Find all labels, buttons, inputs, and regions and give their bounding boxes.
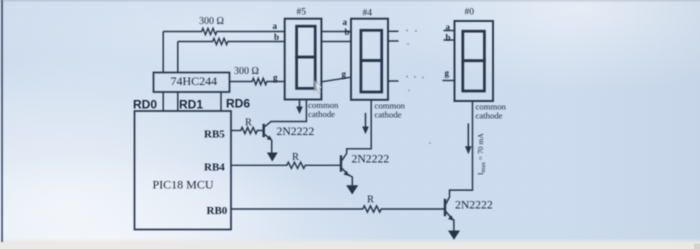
ground arrow Q3: [448, 231, 460, 240]
wire RB4 from PIC: [231, 164, 286, 166]
display DS5 seven-segment #5 box: [285, 19, 322, 100]
mouse cursor pointer: [314, 80, 322, 93]
microcontroller U2 PIC18 MCU box: [135, 111, 232, 230]
svg-text:RB5: RB5: [204, 129, 225, 141]
wire segment-a DS5 to DS4: [321, 31, 351, 33]
svg-text:a: a: [273, 21, 278, 31]
svg-text:#0: #0: [465, 8, 475, 18]
wire RB0 from PIC: [231, 208, 362, 210]
svg-text:#5: #5: [297, 8, 307, 18]
svg-text:2N2222: 2N2222: [277, 125, 315, 138]
wire segment-b stub right of DS4: [388, 40, 399, 42]
svg-text:a: a: [446, 22, 451, 32]
wire riser to segment b line: [177, 42, 179, 73]
transistor Q2 2N2222: [341, 153, 349, 176]
ground arrow Q1: [267, 153, 278, 162]
wire Q1 emitter to ground: [271, 140, 273, 153]
svg-text:cathode: cathode: [476, 111, 503, 121]
svg-text:cathode: cathode: [375, 110, 402, 120]
wire segment-g to display DS5: [268, 81, 285, 83]
resistor R3 300ohm on segment g: [252, 78, 268, 84]
resistor R2 on segment b: [212, 38, 228, 44]
svg-text:300 Ω: 300 Ω: [234, 66, 259, 77]
svg-text:b: b: [274, 32, 279, 42]
svg-text:g: g: [445, 68, 450, 78]
svg-text:g: g: [342, 69, 347, 79]
wire Q3 emitter to ground: [453, 219, 454, 231]
wire RD6 stub PIC to 74HC244: [220, 92, 222, 111]
transistor Q3 2N2222: [445, 196, 454, 220]
display DS0 digit eight segments: [463, 31, 485, 91]
svg-text:300 Ω: 300 Ω: [199, 16, 224, 27]
svg-text:2N2222: 2N2222: [352, 153, 390, 166]
current arrow under DS4: [362, 113, 369, 134]
svg-text:RD0: RD0: [133, 98, 157, 112]
display DS0 seven-segment #0 box: [455, 21, 494, 101]
svg-text:cathode: cathode: [308, 109, 335, 119]
wire segment-g stub right of DS4: [388, 80, 399, 82]
wire RD0 stub PIC to 74HC244: [162, 92, 164, 111]
svg-text:g: g: [273, 73, 278, 83]
wire R4 to Q1 base: [258, 130, 263, 132]
wire RD1 stub PIC to 74HC244: [177, 92, 179, 111]
wire R6 to Q3 base: [382, 208, 444, 210]
wire segment-a stub into DS0: [444, 30, 455, 32]
wire segment-g net from 74HC244: [230, 81, 252, 83]
svg-text:b: b: [446, 33, 451, 43]
wire DS5 common cathode down: [271, 100, 307, 122]
svg-text:R: R: [367, 195, 374, 206]
svg-text:R: R: [245, 118, 252, 129]
display DS4 seven-segment #4 box: [351, 19, 388, 100]
resistor R6 on RB0: [362, 206, 382, 212]
wire Q2 emitter to ground: [348, 175, 352, 186]
wire segment-a to display DS5: [218, 31, 285, 33]
resistor R1 300ohm on segment a: [201, 28, 217, 34]
wire R5 to Q2 base: [306, 164, 340, 166]
wire RB5 from PIC: [231, 130, 240, 132]
current arrow under DS5: [296, 100, 303, 115]
wire segment-a stub right of DS4: [388, 30, 399, 32]
display DS4 digit eight segments: [361, 30, 382, 92]
screen left edge artifact line: [1, 0, 3, 242]
svg-text:RB4: RB4: [204, 162, 225, 174]
svg-text:R: R: [292, 152, 299, 163]
svg-text:b: b: [345, 27, 350, 37]
current arrow Imax under DS0: [465, 123, 472, 154]
ground arrow Q2: [346, 185, 358, 194]
svg-text:RD1: RD1: [179, 98, 203, 112]
wire segment-g DS5 to DS4: [321, 77, 351, 82]
wire segment-b stub into DS0: [444, 39, 455, 41]
wire segment-b net: [178, 41, 212, 43]
svg-text:PIC18 MCU: PIC18 MCU: [153, 177, 214, 191]
svg-text:74HC244: 74HC244: [171, 74, 218, 88]
svg-text:2N2222: 2N2222: [455, 199, 493, 212]
wire DS4 common cathode down to Q2: [347, 100, 372, 153]
resistor R5 on RB4: [286, 162, 306, 168]
display DS5 digit eight segments: [297, 26, 316, 88]
svg-text:RD6: RD6: [226, 97, 250, 111]
svg-text:RB0: RB0: [207, 205, 228, 217]
speck dot near R3 label: [256, 69, 258, 71]
wire segment-a net: [163, 31, 201, 33]
wire riser to segment a line: [162, 32, 164, 73]
transistor Q1 2N2222: [264, 122, 273, 141]
buffer U3 74HC244 box: [154, 73, 230, 93]
wire segment-b DS5 to DS4: [321, 41, 351, 43]
wire DS0 common cathode down to Q3: [450, 101, 473, 197]
wire segment-b to display DS5: [229, 41, 285, 43]
svg-text:#4: #4: [363, 9, 373, 19]
ellipsis dots continuation between DS4 and DS0: [406, 30, 431, 144]
resistor R4 on RB5: [240, 127, 258, 133]
svg-text:a: a: [343, 17, 348, 27]
wire segment-g stub into DS0: [443, 80, 455, 82]
